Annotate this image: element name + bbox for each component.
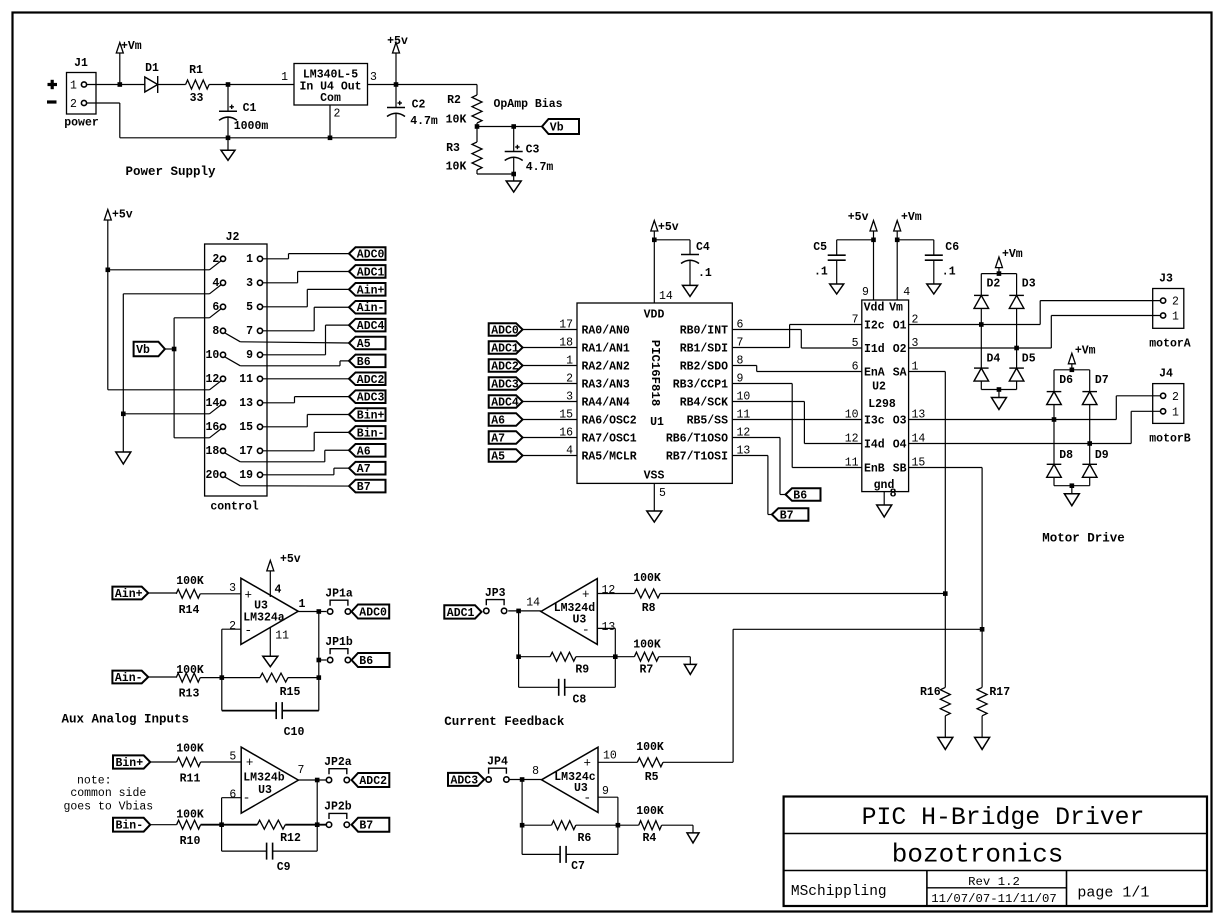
title block column line 1: [926, 871, 928, 907]
svg-text:C3: C3: [526, 144, 540, 157]
J2 pin 2 diagonal stub: [210, 261, 221, 270]
junction U3d out node: [516, 609, 521, 614]
svg-text:RB1/SDI: RB1/SDI: [680, 343, 728, 356]
microcontroller U1 PIC16F818 box: [577, 303, 732, 483]
wire R5 to SB node: [663, 761, 733, 763]
wire bridge D2 top rail: [998, 268, 1000, 274]
svg-text:R6: R6: [577, 832, 591, 845]
svg-text:+Vm: +Vm: [121, 40, 142, 53]
svg-text:RA7/OSC1: RA7/OSC1: [582, 433, 637, 446]
jumper JP2a: [326, 777, 331, 782]
svg-text:20: 20: [205, 469, 219, 482]
wire R4 to ground: [662, 824, 693, 826]
svg-text:3: 3: [229, 582, 236, 595]
svg-text:100K: 100K: [176, 809, 204, 822]
wire ADC0 to U1: [523, 329, 577, 331]
svg-text:100K: 100K: [633, 572, 661, 585]
svg-text:Bin-: Bin-: [116, 820, 144, 833]
net flag ADC3: [448, 773, 484, 786]
svg-text:power: power: [64, 117, 99, 130]
svg-text:+5v: +5v: [848, 211, 869, 224]
net flag ADC1: [444, 605, 481, 618]
wire A5 to U1: [523, 455, 577, 457]
wire R9 to -in node: [576, 656, 615, 658]
svg-text:U3: U3: [258, 784, 272, 797]
wire RB4 to L298 I4d: [732, 401, 804, 403]
svg-text:9: 9: [862, 286, 869, 299]
svg-text:R2: R2: [447, 94, 461, 107]
svg-text:4: 4: [275, 584, 282, 597]
svg-text:1000m: 1000m: [234, 120, 269, 133]
svg-text:Vm: Vm: [889, 302, 903, 315]
svg-text:12: 12: [602, 584, 616, 597]
svg-text:motorB: motorB: [1149, 433, 1191, 446]
svg-text:LM324a: LM324a: [243, 612, 285, 625]
wire R7 to ground: [659, 656, 691, 658]
diode D2: [980, 274, 982, 296]
svg-text:.1: .1: [814, 266, 828, 279]
junction R6 right: [616, 823, 621, 828]
svg-text:R5: R5: [645, 771, 659, 784]
diode D8: [1047, 463, 1062, 465]
U2 gnd pin 8 wire: [883, 492, 885, 505]
wire +5v to U1 VDD pin 14: [653, 231, 655, 303]
resistor R7: [615, 656, 634, 658]
svg-text:Vb: Vb: [136, 344, 150, 357]
svg-text:6: 6: [229, 789, 236, 802]
svg-text:JP2b: JP2b: [324, 801, 352, 814]
wire R14 to U3a +in: [200, 593, 241, 595]
svg-text:11: 11: [845, 457, 859, 470]
ground symbol power supply: [227, 138, 229, 151]
ground symbol bias: [513, 174, 515, 181]
resistor R16: [940, 687, 950, 715]
svg-text:D7: D7: [1095, 374, 1109, 387]
svg-text:RA5/MCLR: RA5/MCLR: [582, 451, 637, 464]
wire U3d +in to R8: [597, 593, 634, 595]
svg-text:R4: R4: [642, 832, 656, 845]
svg-text:RA1/AN1: RA1/AN1: [582, 343, 630, 356]
resistor R13: [176, 673, 200, 682]
junction R6 left: [520, 823, 525, 828]
wire ADC2 to U1: [523, 365, 577, 367]
wire U3a out: [298, 611, 326, 613]
svg-text:D1: D1: [145, 62, 159, 75]
svg-text:Aux Analog Inputs: Aux Analog Inputs: [62, 713, 190, 727]
U4 pin2 wire: [329, 105, 331, 138]
J2 pin 14 diagonal stub: [210, 405, 221, 414]
ground symbol U2: [877, 505, 892, 517]
svg-text:3: 3: [370, 71, 377, 84]
wire R12 to JP2b node: [285, 824, 326, 826]
svg-text:O2: O2: [893, 343, 907, 356]
ground symbol C4: [683, 285, 698, 296]
svg-text:C4: C4: [696, 241, 710, 254]
resistor R4: [618, 824, 639, 826]
wire Bin- to R10: [150, 824, 176, 826]
net flag ADC1: [349, 265, 386, 278]
junction C5 tap: [871, 238, 876, 243]
svg-text:JP3: JP3: [485, 587, 506, 600]
net flag A7: [349, 462, 386, 475]
J2 pin 13: [257, 400, 262, 405]
ground symbol J2: [116, 452, 131, 464]
resistor R5: [637, 758, 663, 767]
junction O4 bridgeB: [1087, 441, 1092, 446]
capacitor C8: [558, 679, 560, 696]
net flag ADC4 at U1: [489, 395, 523, 408]
ground symbol C5: [830, 284, 844, 294]
regulator U4 LM340L-5 box: [294, 64, 368, 106]
svg-text:9: 9: [246, 349, 253, 362]
wire RB7 to B7 flag: [732, 455, 768, 457]
diode D5: [1009, 367, 1024, 369]
op-amp U3c LM324c: [542, 747, 599, 812]
svg-text:R1: R1: [189, 64, 203, 77]
svg-text:C10: C10: [284, 726, 305, 739]
svg-text:Rev 1.2: Rev 1.2: [968, 875, 1020, 889]
connector J1: [67, 73, 97, 115]
net flag Ain-: [349, 301, 386, 314]
wire +5v net to J2 pins 2 and 12: [107, 220, 109, 390]
wire RB6 to B6 flag: [732, 437, 780, 439]
net flag B6 at JP1b: [352, 653, 390, 667]
svg-text:D9: D9: [1095, 449, 1109, 462]
wire U3c +in to R5: [598, 761, 637, 763]
svg-text:control: control: [210, 501, 258, 514]
svg-text:C7: C7: [571, 860, 585, 873]
J2 pin 6: [220, 304, 225, 309]
svg-text:100K: 100K: [636, 805, 664, 818]
svg-text:MSchippling: MSchippling: [791, 884, 887, 900]
J2 pin 8: [220, 328, 225, 333]
resistor R11: [177, 758, 201, 767]
capacitor C1: [227, 85, 229, 112]
wire A7 to U1: [523, 437, 577, 439]
power +Vm symbol bridge D2D3: [995, 257, 1002, 268]
junction +5v pin2 tap: [106, 268, 111, 273]
wire O4 to J4 pin1: [909, 443, 1132, 445]
svg-text:VDD: VDD: [644, 309, 665, 322]
svg-text:-: -: [582, 623, 590, 638]
J2 pin 16 diagonal stub: [210, 429, 221, 438]
svg-text:1: 1: [1172, 311, 1179, 324]
svg-text:9: 9: [602, 785, 609, 798]
power +Vm symbol: [119, 53, 121, 85]
title block border: [784, 797, 1207, 907]
junction O1 bridgeA: [979, 322, 984, 327]
svg-text:Motor Drive: Motor Drive: [1042, 532, 1125, 546]
junction U3a -in node: [220, 675, 225, 680]
junction U4 com: [328, 136, 333, 141]
svg-text:R7: R7: [639, 664, 653, 677]
svg-text:C2: C2: [412, 99, 426, 112]
svg-text:19: 19: [239, 469, 253, 482]
connector J2 box: [205, 244, 267, 496]
svg-text:A6: A6: [491, 415, 505, 428]
J2 pin 14: [220, 400, 225, 405]
wire C7 loop: [522, 853, 560, 855]
svg-text:R3: R3: [446, 142, 460, 155]
J2 pin 20 diagonal stub: [225, 477, 240, 486]
junction U3b -in node: [219, 822, 224, 827]
svg-text:B6: B6: [357, 356, 371, 369]
svg-text:ADC2: ADC2: [357, 374, 385, 387]
net flag B7: [349, 480, 386, 493]
svg-text:2: 2: [1172, 391, 1179, 404]
capacitor C2: [395, 85, 397, 108]
svg-text:PIC H-Bridge Driver: PIC H-Bridge Driver: [862, 804, 1145, 832]
svg-text:RB0/INT: RB0/INT: [680, 325, 728, 338]
title block row line 1: [784, 833, 1207, 835]
net flag A5: [349, 337, 386, 350]
svg-text:O4: O4: [893, 439, 907, 452]
svg-text:JP2a: JP2a: [324, 756, 352, 769]
junction R9 right: [613, 654, 618, 659]
connector J3: [1153, 289, 1184, 329]
J2 pin 10 diagonal stub: [225, 357, 240, 366]
svg-text:10: 10: [603, 749, 617, 762]
ground symbol U3a: [263, 656, 278, 667]
J2 pin 11: [257, 376, 262, 381]
svg-text:-: -: [583, 791, 591, 806]
svg-text:ADC1: ADC1: [357, 266, 385, 279]
svg-text:Current Feedback: Current Feedback: [444, 715, 565, 729]
wire JP2b to B7: [351, 824, 352, 826]
svg-text:JP4: JP4: [487, 756, 508, 769]
power +5v symbol J2: [104, 210, 111, 221]
svg-text:7: 7: [298, 764, 305, 777]
svg-text:U2: U2: [872, 381, 886, 394]
wire ADC1 to U1: [523, 347, 577, 349]
wire J2 pin 19 to A7: [263, 474, 334, 476]
svg-text:11: 11: [275, 630, 289, 643]
svg-text:motorA: motorA: [1149, 338, 1191, 351]
wire J2 pin 1 to ADC0: [263, 258, 289, 260]
svg-text:+Vm: +Vm: [1002, 248, 1023, 261]
svg-text:10: 10: [845, 409, 859, 422]
junction U3c out node: [520, 777, 525, 782]
ground symbol C6: [927, 284, 941, 294]
svg-text:C5: C5: [813, 241, 827, 254]
wire J2 pin 8 to A5: [240, 342, 349, 343]
svg-text:R16: R16: [920, 686, 941, 699]
resistor R3: [476, 127, 478, 143]
jumper JP4: [486, 777, 491, 782]
wire JP3 to U3d out: [508, 610, 541, 612]
wire D3 to D5: [1016, 308, 1018, 368]
svg-text:A6: A6: [357, 445, 371, 458]
wire to JP1b: [319, 659, 327, 661]
diode D7: [1089, 370, 1091, 392]
J2 pin 1: [257, 256, 262, 261]
wire RB1 to L298 I2c: [732, 347, 789, 349]
svg-text:PIC16F818: PIC16F818: [648, 340, 662, 406]
svg-text:8: 8: [212, 325, 219, 338]
svg-text:SA: SA: [893, 367, 907, 380]
wire D1 to R1: [158, 84, 186, 86]
svg-text:2: 2: [212, 253, 219, 266]
wire C9 loop: [221, 825, 223, 851]
svg-text:D6: D6: [1059, 374, 1073, 387]
wire RB3 to L298 EnB: [732, 383, 792, 385]
U3a pin11 gnd: [269, 627, 271, 656]
svg-text:7: 7: [852, 314, 859, 327]
J2 pin 18: [220, 448, 225, 453]
svg-text:D5: D5: [1022, 353, 1036, 366]
wire R6 to -in node: [576, 824, 618, 826]
wire U3a out down to JP1b: [318, 612, 320, 678]
U3a pin4 +5v: [269, 571, 271, 597]
wire R11 to U3b +in: [201, 761, 242, 763]
J1 plus terminal: [48, 83, 58, 86]
wire R1 to U4 input: [209, 84, 294, 86]
svg-text:15: 15: [239, 421, 253, 434]
svg-text:J4: J4: [1159, 368, 1173, 381]
svg-text:5: 5: [246, 301, 253, 314]
svg-text:8: 8: [890, 488, 897, 501]
net flag Bin-: [349, 426, 386, 439]
capacitor C4: [654, 239, 690, 241]
diode D1: [145, 77, 158, 92]
svg-text:RA2/AN2: RA2/AN2: [582, 361, 630, 374]
svg-text:4.7m: 4.7m: [526, 161, 554, 174]
wire D6 to D8: [1053, 405, 1055, 465]
diode D4: [974, 367, 989, 369]
svg-text:100K: 100K: [636, 741, 664, 754]
net flag Vb: [542, 119, 579, 134]
wire bridge D2 bottom rail: [980, 381, 982, 389]
svg-text:Ain+: Ain+: [115, 588, 143, 601]
svg-text:RA6/OSC2: RA6/OSC2: [582, 415, 637, 428]
ground bus wire: [120, 137, 396, 139]
ground symbol R7: [684, 664, 696, 674]
svg-text:11: 11: [239, 373, 253, 386]
junction +5v node: [394, 82, 399, 87]
svg-text:I4d: I4d: [864, 439, 885, 452]
capacitor C3: [513, 127, 515, 152]
svg-text:L298: L298: [868, 398, 896, 411]
svg-text:17: 17: [239, 445, 253, 458]
resistor R6: [552, 821, 576, 830]
diode D6: [1053, 370, 1055, 392]
svg-text:RA4/AN4: RA4/AN4: [582, 397, 630, 410]
wire O3 to J4 pin2: [909, 419, 1117, 421]
wire J2 pin 18 to A6: [240, 461, 324, 463]
resistor R17: [977, 687, 987, 715]
connector J4: [1153, 384, 1184, 424]
svg-text:ADC4: ADC4: [491, 397, 519, 410]
svg-text:B7: B7: [780, 510, 794, 523]
junction JP1b tap: [317, 658, 322, 663]
wire A6 to U1: [523, 419, 577, 421]
capacitor C6: [897, 239, 934, 241]
wire R8 to SA node: [660, 593, 945, 595]
svg-text:C6: C6: [945, 241, 959, 254]
wire -in node up to U3a: [221, 629, 223, 677]
net flag A6: [349, 444, 386, 457]
svg-text:1: 1: [299, 598, 306, 611]
wire J1 pin1 to D1: [87, 84, 145, 86]
svg-text:+: +: [582, 588, 590, 602]
svg-text:11/07/07-11/11/07: 11/07/07-11/11/07: [931, 892, 1056, 906]
power +Vm symbol U2: [896, 231, 898, 240]
driver U2 L298 box: [862, 300, 909, 492]
J2 pin 5: [257, 304, 262, 309]
jumper JP1a: [327, 609, 332, 614]
svg-text:2: 2: [334, 108, 341, 121]
svg-text:R9: R9: [575, 664, 589, 677]
junction R8 SA: [943, 591, 948, 596]
wire Bin+ to R11: [150, 761, 176, 763]
svg-text:ADC0: ADC0: [357, 249, 385, 262]
wire J2 pin 3 to ADC1: [263, 282, 298, 284]
svg-text:RB7/T1OSI: RB7/T1OSI: [666, 451, 728, 464]
jumper JP3: [484, 608, 489, 613]
svg-text:ADC3: ADC3: [357, 392, 385, 405]
junction C4 tap: [652, 238, 657, 243]
svg-text:6: 6: [852, 361, 859, 374]
wire J2 pin 9 to ADC4: [263, 354, 326, 356]
svg-text:SB: SB: [893, 463, 907, 476]
svg-text:RB6/T1OSO: RB6/T1OSO: [666, 433, 728, 446]
net flag B6: [349, 355, 386, 368]
svg-text:RB3/CCP1: RB3/CCP1: [673, 379, 728, 392]
svg-text:note:: note:: [77, 775, 112, 788]
diode D3: [1016, 274, 1018, 296]
svg-text:Bin+: Bin+: [357, 410, 385, 423]
svg-text:1: 1: [1172, 406, 1179, 419]
svg-text:EnB: EnB: [864, 463, 885, 476]
op-amp U3a LM324a: [241, 578, 298, 644]
J2 pin 7: [257, 328, 262, 333]
wire U3c out node down: [521, 780, 523, 855]
net flag Vb at J2: [165, 348, 174, 350]
svg-text:2: 2: [1172, 296, 1179, 309]
svg-text:C1: C1: [243, 102, 257, 115]
net flag ADC2: [349, 372, 386, 385]
svg-text:100K: 100K: [176, 743, 204, 756]
svg-text:100K: 100K: [176, 575, 204, 588]
net flag ADC3: [349, 390, 386, 403]
net flag Bin-: [113, 818, 150, 832]
svg-text:7: 7: [246, 325, 253, 338]
junction R15 right: [317, 675, 322, 680]
wire D7 to D9: [1089, 405, 1091, 465]
svg-text:ADC1: ADC1: [447, 607, 475, 620]
J2 pin 17: [257, 448, 262, 453]
svg-text:R17: R17: [989, 686, 1010, 699]
junction O2 bridgeA: [1014, 346, 1019, 351]
svg-text:5: 5: [659, 487, 666, 500]
J2 pin 8 diagonal stub: [225, 333, 240, 342]
node C1 top: [226, 82, 231, 87]
svg-text:Ain-: Ain-: [357, 302, 385, 315]
power +5v symbol U1: [651, 221, 658, 232]
svg-text:4: 4: [212, 277, 219, 290]
svg-text:13: 13: [239, 397, 253, 410]
op-amp U3b LM324b: [241, 747, 298, 813]
net flag Bin+: [113, 755, 150, 768]
wire JP1a to ADC0: [350, 611, 353, 613]
net flag ADC3 at U1: [489, 377, 523, 390]
svg-text:R10: R10: [180, 835, 201, 848]
svg-text:2: 2: [70, 98, 77, 111]
ground symbol R16: [944, 730, 946, 737]
wire C10 loop: [221, 678, 223, 711]
wire Ain+ to R14: [148, 592, 176, 594]
svg-text:B7: B7: [359, 820, 373, 833]
